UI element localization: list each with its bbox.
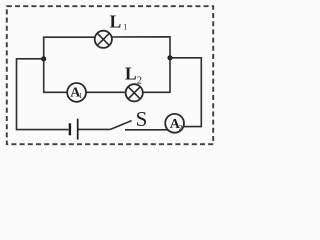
svg-text:2: 2	[179, 123, 183, 132]
battery cell negative plate (short)	[69, 123, 71, 135]
dashed boundary frame	[7, 6, 213, 144]
ammeter A2	[165, 114, 184, 133]
wire: middle branch between A1 and L2	[86, 91, 126, 93]
lamp L2	[126, 84, 143, 101]
svg-text:1: 1	[123, 23, 127, 32]
battery cell positive plate (long)	[77, 119, 79, 140]
ammeter A1	[67, 83, 86, 102]
wire: left lead from junction to bottom rail	[17, 59, 69, 130]
wire: battery to switch pivot	[79, 128, 111, 130]
lamp L1	[95, 31, 112, 48]
wire: top branch right + right stub down to junction	[112, 37, 170, 58]
wire: top branch left stub	[44, 37, 95, 59]
svg-text:L: L	[110, 11, 122, 31]
node: left junction	[41, 56, 46, 61]
switch right contact / wire to A2	[125, 129, 168, 131]
svg-text:L: L	[125, 63, 137, 83]
switch S lever	[110, 121, 131, 130]
svg-text:2: 2	[137, 76, 142, 87]
svg-text:S: S	[136, 107, 148, 131]
node: right junction	[167, 55, 172, 60]
wire: middle branch right stub up to junction	[143, 58, 170, 93]
wire: middle branch left stub	[44, 59, 67, 93]
svg-text:1: 1	[79, 92, 83, 100]
wire: right lead from junction to A2	[170, 58, 201, 127]
